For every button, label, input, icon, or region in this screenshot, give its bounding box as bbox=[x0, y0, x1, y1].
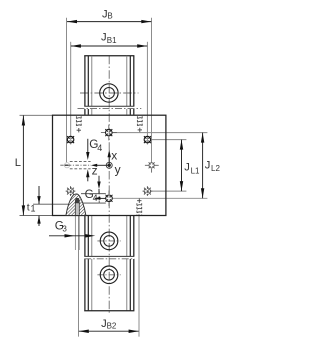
svg-text:J: J bbox=[184, 162, 190, 174]
svg-text:B: B bbox=[107, 12, 112, 21]
svg-text:y: y bbox=[115, 163, 121, 177]
svg-text:t: t bbox=[27, 201, 30, 213]
svg-text:J: J bbox=[205, 159, 211, 171]
svg-text:B2: B2 bbox=[107, 321, 117, 330]
svg-text:4: 4 bbox=[97, 143, 102, 153]
svg-text:1: 1 bbox=[31, 203, 36, 213]
svg-text:L: L bbox=[15, 157, 21, 169]
svg-text:L1: L1 bbox=[191, 166, 200, 175]
svg-text:3: 3 bbox=[62, 225, 67, 234]
svg-text:B1: B1 bbox=[107, 36, 117, 45]
svg-text:J: J bbox=[101, 32, 107, 44]
svg-text:z: z bbox=[92, 164, 98, 178]
svg-text:4: 4 bbox=[93, 193, 98, 203]
svg-text:L2: L2 bbox=[211, 164, 220, 173]
svg-text:x: x bbox=[111, 148, 117, 162]
